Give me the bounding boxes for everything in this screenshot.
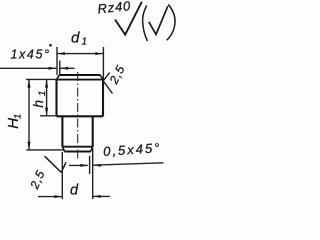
- step face: [57, 115, 104, 117]
- chamfer dimension 0,5x45 arrows: [69, 156, 164, 174]
- part outline: big cylinder: [57, 75, 104, 116]
- roughness corner mark Rz40: [97, 0, 175, 41]
- dimension line d: [38, 195, 110, 198]
- label H1: [5, 114, 24, 129]
- svg-text:1: 1: [37, 91, 48, 96]
- svg-text:d: d: [70, 183, 79, 199]
- extension line bottom (left): [26, 149, 63, 151]
- part outline: small cylinder: [62, 116, 92, 151]
- dimension line h1: [45, 79, 48, 115]
- svg-text:d: d: [71, 30, 80, 47]
- extension line top (left): [26, 78, 57, 80]
- svg-text:h: h: [30, 100, 46, 108]
- centerline: [77, 72, 79, 159]
- label d1: [71, 30, 87, 48]
- dimension line d1: [57, 47, 103, 80]
- roughness mark 2,5 on lower-left surface: [27, 156, 66, 192]
- roughness mark 2,5 on top-right chamfer: [103, 63, 128, 94]
- extension lines d: [61, 152, 63, 199]
- dimension line H1: [27, 79, 30, 149]
- svg-text:1: 1: [12, 114, 23, 119]
- stray ink dot: [49, 44, 52, 47]
- svg-text:1x45°: 1x45°: [11, 48, 51, 62]
- extension line step (left): [40, 115, 57, 117]
- label h1: [30, 91, 48, 108]
- svg-text:1: 1: [82, 37, 88, 48]
- chamfer dimension 1x45 arrows: [0, 61, 75, 75]
